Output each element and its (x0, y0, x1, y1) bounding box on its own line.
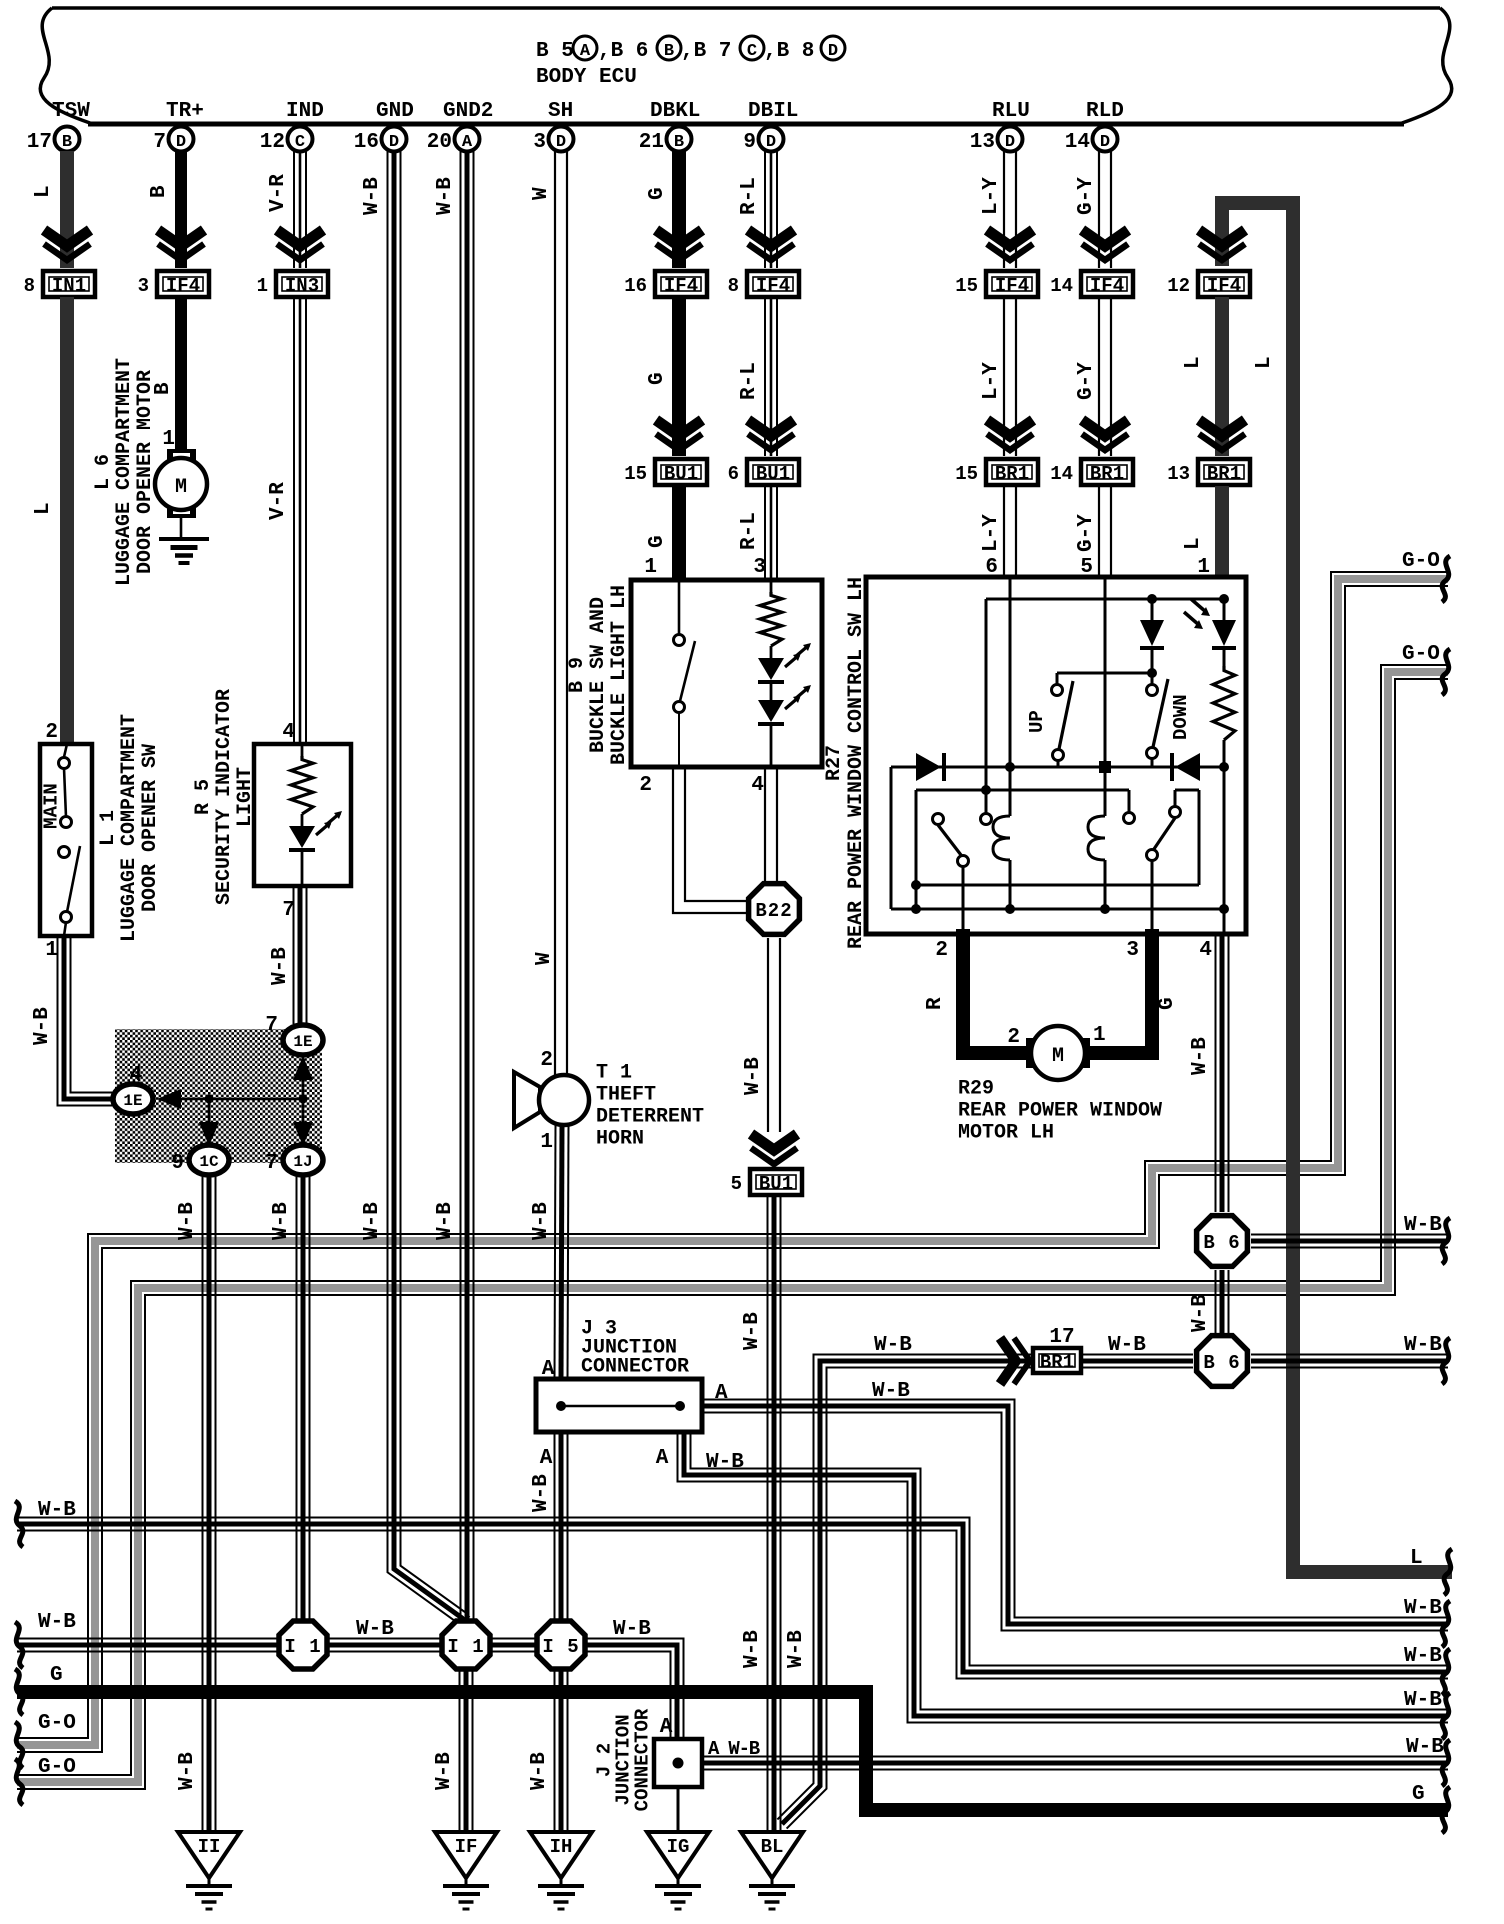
svg-text:L 1: L 1 (97, 810, 120, 846)
dotted shade region (115, 1029, 322, 1163)
wire W-B 1C to ground II (215, 1176, 217, 1832)
svg-text:W-B: W-B (361, 177, 384, 215)
R27 relay coil left (1009, 767, 1012, 816)
svg-text:L: L (1410, 1547, 1423, 1570)
arrow into 12 IF4 (1199, 230, 1245, 246)
label L1 component (97, 714, 162, 942)
R27 left drop to bottom (890, 767, 893, 909)
curl (1442, 1601, 1450, 1647)
wire GND W-B (401, 151, 470, 1617)
svg-text:W-B: W-B (176, 1202, 199, 1240)
svg-text:D: D (389, 133, 399, 152)
wire W-B horn to J3 (568, 1125, 569, 1379)
svg-text:BU1: BU1 (756, 463, 790, 485)
arrow into IN1 (44, 230, 90, 246)
label R27 component (823, 577, 868, 949)
wire L to luggage sw (60, 297, 74, 744)
wire W-B B9 pin4 to B22 (776, 767, 778, 882)
svg-text:W-B: W-B (1404, 1689, 1442, 1712)
wire W-B B22 to 5 BU1 (779, 938, 781, 1132)
svg-text:W-B: W-B (874, 1334, 912, 1357)
label B9 component (566, 585, 631, 765)
wire R-L (776, 297, 778, 456)
svg-text:A: A (715, 1382, 728, 1405)
svg-text:IG: IG (667, 1836, 690, 1858)
svg-text:W-B: W-B (434, 1202, 457, 1240)
svg-text:DBIL: DBIL (748, 100, 798, 123)
svg-text:8: 8 (24, 275, 35, 297)
svg-text:IF4: IF4 (756, 275, 790, 297)
arrow into 15 BU1 (656, 420, 702, 436)
svg-text:A: A (540, 1447, 553, 1470)
svg-text:I 5: I 5 (542, 1636, 579, 1658)
svg-text:DOOR OPENER SW: DOOR OPENER SW (139, 744, 162, 912)
wire G-Y from ECU (1110, 151, 1112, 268)
svg-text:W-B: W-B (31, 1007, 54, 1045)
J3 internal bar (561, 1405, 680, 1408)
wire W-B bus upper (17, 1518, 1448, 1666)
svg-text:W: W (533, 952, 556, 965)
svg-text:W-B: W-B (530, 1202, 553, 1240)
svg-text:1: 1 (257, 275, 268, 297)
svg-text:SECURITY INDICATOR: SECURITY INDICATOR (213, 689, 236, 905)
svg-text:4: 4 (1199, 939, 1212, 962)
svg-text:2: 2 (1007, 1026, 1020, 1049)
wire G to B9 (672, 486, 686, 580)
svg-text:MOTOR LH: MOTOR LH (958, 1122, 1054, 1145)
curl (1442, 1218, 1450, 1264)
R27 right inner drop (1223, 767, 1226, 934)
svg-text:21: 21 (639, 131, 664, 154)
connector 7 1J (283, 1145, 323, 1175)
svg-text:G: G (1156, 997, 1179, 1010)
svg-text:TR+: TR+ (166, 100, 204, 123)
curl (1442, 1338, 1450, 1384)
svg-text:L 6: L 6 (92, 454, 115, 490)
wire R-L to B9 (776, 486, 778, 580)
label J2 component (594, 1708, 654, 1811)
svg-text:UP: UP (1026, 710, 1048, 733)
wire W-B I5 to ground IH (567, 1671, 569, 1830)
svg-text:4: 4 (130, 1064, 143, 1087)
svg-text:2: 2 (45, 721, 58, 744)
connector 5 BU1 (750, 1169, 802, 1195)
wire L to R27 pin1 (1215, 486, 1229, 580)
svg-text:L: L (1253, 356, 1276, 369)
connector 16 IF4 (655, 271, 707, 297)
svg-text:16: 16 (624, 275, 647, 297)
connector 15 BR1 (986, 459, 1038, 485)
svg-text:R-L: R-L (738, 512, 761, 550)
wire W-B BL branch to BR1 and B6 (777, 1355, 1193, 1820)
svg-text:T 1: T 1 (596, 1062, 632, 1085)
wire TR+ B thick (175, 151, 187, 268)
svg-text:13: 13 (1167, 463, 1190, 485)
svg-text:D: D (176, 133, 186, 152)
svg-text:DETERRENT: DETERRENT (596, 1106, 704, 1129)
ground BL (741, 1832, 803, 1878)
arrow into 16 IF4 (656, 230, 702, 246)
svg-text:15: 15 (955, 463, 978, 485)
R27 diode D4 (1175, 753, 1200, 781)
svg-text:W-B: W-B (742, 1057, 765, 1095)
svg-text:6: 6 (728, 463, 739, 485)
svg-text:LIGHT: LIGHT (234, 767, 257, 827)
svg-text:B 5: B 5 (536, 40, 574, 63)
arrow into IN3 (277, 230, 323, 246)
ground symbol L6 (159, 537, 209, 541)
connector 8 IN1 (43, 271, 95, 297)
svg-text:1: 1 (162, 428, 175, 451)
wire V-R to R5 (305, 297, 307, 744)
connector 17 BR1 (1033, 1348, 1081, 1373)
svg-text:W-B: W-B (361, 1202, 384, 1240)
svg-text:BUCKLE LIGHT LH: BUCKLE LIGHT LH (608, 585, 631, 765)
svg-text:I 1: I 1 (447, 1636, 484, 1658)
svg-text:5: 5 (731, 1173, 742, 1195)
R27 relay contact left (933, 814, 944, 825)
svg-text:C: C (747, 42, 757, 61)
curl (15, 1759, 23, 1805)
wire L to 13 BR1 (1215, 297, 1229, 456)
wire G-O upper right (17, 586, 1448, 1752)
arrow (987, 420, 1033, 436)
arrow into 13 BR1 (1199, 420, 1245, 436)
svg-text:R-L: R-L (738, 362, 761, 400)
connector 6 BU1 (747, 459, 799, 485)
svg-text:1E: 1E (123, 1092, 142, 1110)
svg-text:DOWN: DOWN (1170, 694, 1192, 740)
svg-text:W-B: W-B (741, 1630, 764, 1668)
svg-text:BR1: BR1 (1207, 463, 1241, 485)
svg-text:12: 12 (1167, 275, 1190, 297)
connector 1 IN3 (276, 271, 328, 297)
curl (1442, 649, 1450, 695)
svg-text:G-O: G-O (1402, 550, 1440, 573)
svg-text:D: D (556, 133, 566, 152)
svg-text:13: 13 (970, 131, 995, 154)
svg-text:W-B: W-B (785, 1630, 808, 1668)
R27 diode D2 with arrows (1212, 620, 1236, 646)
R27 mid rail (891, 766, 1224, 769)
svg-text:A: A (462, 133, 473, 152)
svg-text:,B 7: ,B 7 (681, 40, 731, 63)
svg-text:G-O: G-O (38, 1756, 76, 1779)
R27 bottom rail (891, 908, 1224, 911)
svg-text:W-B: W-B (176, 1752, 199, 1790)
ground IH (530, 1832, 592, 1878)
wire W-B J3 right to edge (702, 1400, 1448, 1618)
svg-text:IF4: IF4 (1207, 275, 1241, 297)
svg-text:1J: 1J (293, 1153, 312, 1171)
svg-text:3: 3 (138, 275, 149, 297)
svg-text:G-O: G-O (38, 1712, 76, 1735)
connector I1 second (442, 1621, 490, 1669)
svg-text:G: G (50, 1664, 63, 1687)
svg-text:RLU: RLU (992, 100, 1030, 123)
wire DBIL R-L (776, 151, 778, 268)
security indicator light R5 box (254, 744, 351, 886)
svg-text:R-L: R-L (738, 177, 761, 215)
R27 relay coil right (1104, 767, 1107, 816)
svg-text:B 9: B 9 (566, 657, 589, 693)
svg-text:L: L (32, 502, 55, 515)
svg-text:,B 8: ,B 8 (764, 40, 814, 63)
svg-text:L: L (1182, 537, 1205, 550)
arrow into 8 IF4 (748, 230, 794, 246)
R27 top rail (986, 598, 1224, 601)
svg-text:B 6: B 6 (1203, 1352, 1240, 1374)
svg-text:IF4: IF4 (664, 275, 698, 297)
arrow into IF4 (158, 230, 204, 246)
LED in R5 (301, 814, 304, 826)
resistor in R5 (301, 744, 304, 756)
svg-text:1: 1 (540, 1131, 553, 1154)
junction connector J3 box (536, 1379, 702, 1432)
svg-text:LUGGAGE COMPARTMENT: LUGGAGE COMPARTMENT (118, 714, 141, 942)
svg-text:W-B: W-B (1404, 1645, 1442, 1668)
svg-text:L-Y: L-Y (980, 177, 1003, 215)
J2 internal dot (673, 1758, 684, 1769)
curl (1442, 1693, 1450, 1739)
wire W-B bus lower through I1 I1 I5 (17, 1638, 537, 1640)
svg-text:W-B: W-B (356, 1618, 394, 1641)
arrow (1082, 230, 1128, 246)
svg-text:SH: SH (548, 100, 573, 123)
svg-text:G: G (646, 535, 669, 548)
svg-text:CONNECTOR: CONNECTOR (632, 1708, 654, 1811)
svg-text:A: A (660, 1716, 673, 1739)
wire G-Y (1110, 297, 1112, 456)
wire DBKL G thick (672, 151, 686, 268)
wire J2 to ground IG (677, 1787, 680, 1830)
svg-text:15: 15 (624, 463, 647, 485)
svg-text:14: 14 (1050, 463, 1073, 485)
wire G (672, 297, 686, 456)
svg-text:BL: BL (761, 1836, 784, 1858)
curl (15, 1669, 23, 1715)
svg-text:1: 1 (45, 939, 58, 962)
svg-text:V-R: V-R (267, 482, 290, 520)
motor R29 circle (1031, 1026, 1085, 1080)
ECU connector line (88, 122, 1404, 127)
svg-text:I 1: I 1 (284, 1636, 321, 1658)
svg-text:1: 1 (644, 556, 657, 579)
wire W-B 1J to I1 (309, 1176, 311, 1622)
label R5 component (192, 689, 257, 905)
R27 pin6 inner wire (1009, 577, 1012, 767)
wire W-B R27 pin4 to B6 (1228, 934, 1230, 1212)
svg-text:W-B: W-B (1189, 1037, 1212, 1075)
wire L-Y from ECU (1015, 151, 1017, 268)
svg-text:W-B: W-B (1404, 1214, 1442, 1237)
svg-text:C: C (295, 133, 305, 152)
svg-text:REAR POWER WINDOW CONTROL SW L: REAR POWER WINDOW CONTROL SW LH (845, 577, 868, 949)
svg-text:B 6: B 6 (1203, 1232, 1240, 1254)
wire W-B J3 to I5 (567, 1432, 569, 1622)
L1 switch contacts (64, 744, 67, 757)
svg-text:W-B: W-B (528, 1752, 551, 1790)
svg-text:W-B: W-B (269, 947, 292, 985)
curl (15, 1622, 23, 1668)
label L6 component (92, 358, 157, 586)
svg-text:W-B: W-B (1406, 1736, 1444, 1759)
svg-text:V-R: V-R (267, 174, 290, 212)
B9 buckle LEDs (770, 646, 773, 658)
svg-text:II: II (198, 1836, 221, 1858)
wire TSW L (thick) to IN1 (60, 151, 74, 268)
svg-text:1E: 1E (293, 1033, 312, 1051)
luggage compartment door opener sw L1 box (40, 744, 92, 936)
wire G-Y to R27 (1110, 486, 1112, 580)
wire SH W (566, 151, 568, 1075)
svg-text:2: 2 (540, 1049, 553, 1072)
arrow into 5 BU1 (751, 1134, 797, 1150)
svg-text:DOOR OPENER MOTOR: DOOR OPENER MOTOR (134, 370, 157, 574)
ground II (178, 1832, 240, 1878)
svg-text:D: D (1005, 133, 1015, 152)
R27 pin5 inner wire (1104, 577, 1107, 767)
connector I5 (537, 1621, 585, 1669)
svg-text:16: 16 (354, 131, 379, 154)
svg-text:IF4: IF4 (995, 275, 1029, 297)
svg-text:14: 14 (1050, 275, 1073, 297)
curl (1442, 1649, 1450, 1695)
wire W-B J2 to right edge (702, 1756, 1448, 1758)
svg-text:3: 3 (1126, 939, 1139, 962)
svg-text:IN3: IN3 (285, 275, 319, 297)
wire W-B I5 to J2 (585, 1639, 684, 1738)
curl L right (1444, 1549, 1452, 1595)
curl (1442, 556, 1450, 602)
svg-text:GND: GND (376, 100, 414, 123)
svg-text:IF4: IF4 (166, 275, 200, 297)
svg-text:W-B: W-B (530, 1474, 553, 1512)
svg-text:A: A (580, 42, 591, 61)
wire L thick loop top (1222, 203, 1452, 1572)
wire W-B B6 to right edge (1251, 1234, 1448, 1236)
connector 15 IF4 (986, 271, 1038, 297)
wire W-B R5 to 1E (306, 886, 308, 1024)
R27 sub box right (1175, 789, 1199, 792)
R27 resistor (1213, 666, 1235, 740)
wire L-Y to R27 (1015, 486, 1017, 580)
svg-text:BODY ECU: BODY ECU (536, 66, 637, 89)
svg-text:DBKL: DBKL (650, 100, 700, 123)
svg-text:IN1: IN1 (52, 275, 86, 297)
svg-text:2: 2 (639, 774, 652, 797)
wire IND V-R (305, 151, 307, 268)
svg-text:G: G (646, 372, 669, 385)
R27 diode D1 (1140, 620, 1164, 646)
wire R thick R27 pin2 to motor (963, 929, 1026, 1053)
wire W-B I1 to ground IF (472, 1671, 474, 1830)
svg-text:G-Y: G-Y (1075, 177, 1098, 215)
connector B6 lower (1197, 1336, 1248, 1387)
svg-text:B: B (148, 185, 171, 198)
junction wiring in shade (157, 1089, 181, 1109)
connector 12 IF4 (1198, 271, 1250, 297)
wire motor to ground (180, 517, 183, 538)
svg-text:9: 9 (743, 131, 756, 154)
R27 left drop (985, 599, 988, 790)
connector B22 (749, 884, 800, 935)
svg-text:THEFT: THEFT (596, 1084, 656, 1107)
svg-text:1C: 1C (199, 1153, 219, 1171)
connector 8 IF4 (747, 271, 799, 297)
buckle sw and buckle light B9 box (631, 580, 822, 767)
svg-text:4: 4 (282, 721, 295, 744)
curl (1442, 1740, 1450, 1786)
svg-text:IH: IH (550, 1836, 573, 1858)
svg-text:BR1: BR1 (1040, 1351, 1074, 1373)
svg-text:BR1: BR1 (995, 463, 1029, 485)
svg-text:W-B: W-B (434, 177, 457, 215)
svg-text:LUGGAGE COMPARTMENT: LUGGAGE COMPARTMENT (113, 358, 136, 586)
svg-text:B22: B22 (755, 900, 792, 922)
svg-text:G: G (1412, 1783, 1425, 1806)
B9 resistor (770, 580, 773, 592)
connector 14 IF4 (1081, 271, 1133, 297)
svg-text:G-Y: G-Y (1075, 514, 1098, 552)
curl (15, 1722, 23, 1768)
svg-text:7: 7 (153, 131, 166, 154)
svg-text:B: B (674, 133, 684, 152)
svg-text:L-Y: L-Y (980, 362, 1003, 400)
svg-text:D: D (766, 133, 776, 152)
svg-text:W-B: W-B (38, 1499, 76, 1522)
curl (15, 1501, 23, 1547)
arrow (987, 230, 1033, 246)
svg-text:7: 7 (265, 1152, 278, 1175)
theft deterrent horn T1 (514, 1072, 540, 1128)
svg-text:IF4: IF4 (1090, 275, 1124, 297)
R27 diode D3 (916, 753, 941, 781)
body ECU banner outline (52, 6, 1440, 10)
arrow into 17 BR1 (1000, 1338, 1016, 1384)
svg-text:R29: R29 (958, 1078, 994, 1101)
svg-text:17: 17 (1049, 1326, 1074, 1349)
wire G thick R27 pin3 to motor (1090, 929, 1152, 1053)
arrow into 6 BU1 (748, 420, 794, 436)
svg-text:W-B: W-B (1108, 1334, 1146, 1357)
connector 13 BR1 (1198, 459, 1250, 485)
svg-text:GND2: GND2 (443, 100, 493, 123)
svg-text:W-B: W-B (1404, 1597, 1442, 1620)
svg-text:14: 14 (1065, 131, 1090, 154)
svg-text:B: B (664, 42, 674, 61)
svg-text:3: 3 (533, 131, 546, 154)
svg-text:R27: R27 (823, 745, 846, 781)
svg-text:RLD: RLD (1086, 100, 1124, 123)
svg-text:G: G (646, 187, 669, 200)
wire W-B BU1 to BL ground (780, 1195, 782, 1830)
wire W-B B6 to right edge lower (1251, 1354, 1448, 1356)
svg-text:W-B: W-B (433, 1752, 456, 1790)
connector I1 first (279, 1621, 327, 1669)
svg-text:8: 8 (728, 275, 739, 297)
svg-text:A: A (656, 1447, 669, 1470)
svg-text:D: D (1100, 133, 1110, 152)
svg-text:L-Y: L-Y (980, 514, 1003, 552)
svg-text:TSW: TSW (52, 100, 90, 123)
svg-text:A W-B: A W-B (708, 1738, 760, 1760)
connector 14 BR1 (1081, 459, 1133, 485)
svg-text:BU1: BU1 (664, 463, 698, 485)
svg-text:3: 3 (753, 556, 766, 579)
ground IF (435, 1832, 497, 1878)
motor L6 caps (167, 449, 196, 461)
